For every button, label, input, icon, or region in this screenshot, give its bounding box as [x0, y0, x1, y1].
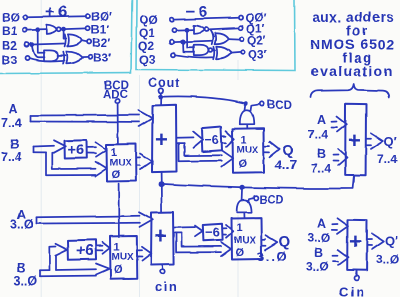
svg-text:Q′: Q′ — [384, 134, 397, 149]
svg-text:Ø: Ø — [236, 247, 245, 259]
svg-text:B3′: B3′ — [93, 51, 111, 65]
svg-text:B: B — [314, 246, 323, 260]
svg-text:A: A — [9, 102, 18, 116]
svg-text:7..4: 7..4 — [377, 153, 397, 167]
svg-text:B2: B2 — [2, 39, 18, 53]
svg-text:7..4: 7..4 — [1, 116, 22, 130]
svg-text:Ø: Ø — [112, 169, 121, 181]
svg-text:B: B — [10, 137, 19, 151]
svg-text:−6: −6 — [204, 132, 219, 147]
svg-text:BØ: BØ — [2, 11, 20, 25]
svg-text:B: B — [317, 147, 326, 161]
svg-text:−6: −6 — [205, 225, 220, 240]
svg-text:Q2′: Q2′ — [247, 34, 266, 48]
svg-text:BCD: BCD — [259, 195, 284, 207]
svg-text:MUX: MUX — [112, 252, 135, 263]
svg-text:4..7: 4..7 — [275, 157, 297, 172]
svg-text:+6: +6 — [46, 4, 71, 21]
svg-text:B1: B1 — [2, 24, 18, 38]
svg-text:3..Ø: 3..Ø — [257, 249, 288, 264]
svg-text:3..Ø: 3..Ø — [376, 253, 399, 267]
svg-text:ADC: ADC — [103, 89, 128, 101]
svg-text:Q3′: Q3′ — [248, 48, 267, 62]
svg-text:MUX: MUX — [110, 158, 133, 169]
svg-text:MUX: MUX — [234, 236, 257, 247]
svg-text:MUX: MUX — [237, 145, 260, 156]
svg-text:BCD: BCD — [267, 100, 292, 112]
svg-text:cin: cin — [155, 279, 178, 294]
svg-text:+6: +6 — [68, 143, 85, 159]
svg-text:B1′: B1′ — [91, 23, 109, 37]
svg-text:3..Ø: 3..Ø — [10, 218, 34, 232]
svg-text:QØ: QØ — [139, 13, 158, 27]
svg-text:3..Ø: 3..Ø — [306, 260, 329, 274]
svg-text:B2′: B2′ — [92, 36, 110, 50]
svg-text:Q3: Q3 — [139, 53, 155, 67]
svg-text:Q′: Q′ — [385, 233, 398, 248]
svg-text:1: 1 — [237, 222, 243, 234]
svg-text:+: + — [349, 229, 362, 254]
svg-text:A: A — [317, 113, 326, 127]
svg-text:Cin: Cin — [339, 285, 366, 297]
svg-text:7..4: 7..4 — [308, 128, 328, 142]
svg-text:A: A — [317, 217, 326, 231]
svg-text:BØ′: BØ′ — [91, 10, 112, 24]
svg-text:+: + — [154, 223, 167, 248]
svg-text:3..Ø: 3..Ø — [307, 231, 330, 245]
svg-text:3..Ø: 3..Ø — [14, 274, 38, 288]
svg-text:Q: Q — [279, 234, 291, 251]
svg-text:7..4: 7..4 — [311, 162, 331, 176]
svg-text:+6: +6 — [76, 243, 94, 260]
svg-text:B3: B3 — [2, 53, 18, 67]
svg-text:Ø: Ø — [114, 264, 123, 276]
svg-text:+: + — [348, 128, 361, 153]
svg-text:Q2: Q2 — [138, 39, 154, 53]
svg-text:7..4: 7..4 — [1, 150, 22, 164]
svg-text:−6: −6 — [186, 4, 211, 21]
svg-text:Cout: Cout — [148, 76, 180, 90]
svg-text:+: + — [155, 127, 168, 152]
svg-text:Ø: Ø — [239, 159, 248, 171]
svg-text:Q1: Q1 — [139, 26, 155, 40]
svg-text:evaluation: evaluation — [311, 63, 393, 79]
